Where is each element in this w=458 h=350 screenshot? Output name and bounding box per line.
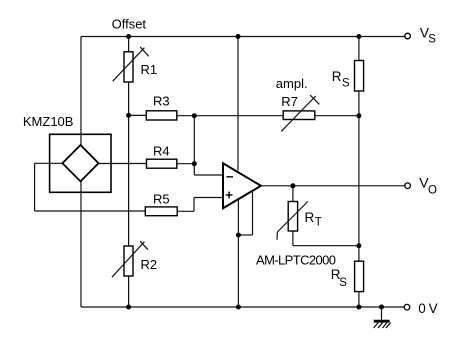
wire op-amp output side loop vertical — [252, 191, 254, 235]
wire op-amp side loop horizontal — [238, 234, 252, 236]
terminal VO — [405, 183, 411, 189]
wire right column RS top — [358, 37, 360, 61]
wire op-amp supply drop — [237, 37, 239, 171]
op-amp plus sign — [226, 194, 233, 196]
junction R7 right column — [356, 113, 361, 118]
wire RT bottom drop — [292, 231, 294, 246]
junction ground stub — [379, 305, 384, 310]
op-amp U1 triangle — [223, 163, 261, 208]
wire op-amp ground drop — [237, 200, 239, 308]
junction offset node — [126, 34, 131, 39]
svg-text:S: S — [342, 77, 350, 89]
svg-text:Offset: Offset — [112, 17, 147, 32]
wire plus input vertical — [193, 198, 195, 212]
junction R3 right — [192, 113, 197, 118]
resistor R5 body — [145, 207, 177, 216]
wire bottom rail 0V — [81, 306, 404, 308]
wire offset column R2 bottom — [128, 276, 130, 307]
wire output VO — [261, 185, 404, 187]
wire ground stub — [381, 307, 383, 321]
svg-text:R5: R5 — [153, 192, 170, 207]
junction VO RT — [290, 183, 295, 188]
svg-text:R4: R4 — [153, 143, 170, 158]
thermistor RT diagonal — [277, 202, 307, 233]
junction RS bottom rail — [356, 305, 361, 310]
ground symbol — [374, 321, 391, 328]
wire right column middle — [358, 91, 360, 261]
op-amp minus sign — [227, 176, 234, 178]
terminal VS — [405, 33, 411, 39]
svg-text:R2: R2 — [141, 257, 158, 272]
wire R5 right — [177, 210, 194, 212]
wire RT top drop — [292, 186, 294, 202]
wire R3 right to R7 left (inverting node) — [177, 115, 283, 117]
wire top rail VS — [81, 36, 405, 38]
junction RT bottom column — [356, 243, 361, 248]
sensor bridge diamond — [62, 145, 98, 181]
svg-text:R1: R1 — [141, 62, 158, 77]
svg-text:R3: R3 — [153, 94, 170, 109]
thermistor RT body — [288, 202, 297, 232]
wire right column RS bottom — [358, 292, 360, 307]
junction R1 R2 R3 — [126, 113, 131, 118]
svg-text:R: R — [305, 210, 315, 225]
wire offset column R1 top — [128, 37, 130, 53]
svg-text:KMZ10B: KMZ10B — [23, 114, 74, 129]
wire bridge left corner to loop — [35, 162, 63, 164]
terminal 0V — [404, 304, 410, 310]
resistor R7 body — [283, 111, 315, 120]
resistor R1 body — [124, 52, 133, 82]
junction R4 right — [192, 161, 197, 166]
resistor RS bottom body — [355, 261, 364, 291]
junction R2 bottom rail — [126, 305, 131, 310]
resistor R2 body — [124, 246, 133, 276]
wire bridge right corner to R4 — [99, 163, 147, 165]
wire minus input — [194, 174, 223, 176]
wire inverting node vertical — [193, 116, 195, 175]
wire offset column R1-R2 — [128, 82, 130, 246]
wire R4 right — [177, 163, 195, 165]
wire loop bottom to R5 — [35, 210, 146, 212]
resistor R7 trimmer arrow — [281, 96, 315, 131]
svg-text:R: R — [332, 69, 342, 84]
wire R3 left — [129, 114, 147, 116]
wire R7 right — [315, 115, 359, 117]
resistor R1 trimmer arrow — [113, 48, 145, 81]
junction op-amp ground loop — [236, 233, 241, 238]
wire left vertical bridge supply — [80, 37, 82, 147]
wire left vertical bridge ground — [80, 181, 82, 308]
svg-text:S: S — [428, 34, 436, 46]
svg-text:S: S — [339, 277, 347, 289]
svg-text:T: T — [315, 217, 322, 229]
sensor KMZ10B box — [50, 134, 111, 192]
wire RT bottom horizontal — [293, 245, 359, 247]
svg-text:ampl.: ampl. — [276, 76, 308, 91]
junction op-amp ground rail — [236, 305, 241, 310]
svg-text:0 V: 0 V — [418, 301, 437, 316]
resistor RS top body — [355, 61, 364, 92]
svg-text:O: O — [428, 185, 437, 197]
junction supply drop top — [236, 34, 241, 39]
junction RS top rail — [356, 34, 361, 39]
resistor R2 trimmer arrow — [112, 242, 144, 278]
resistor R3 body — [146, 111, 177, 120]
svg-text:R7: R7 — [281, 94, 298, 109]
wire plus input — [194, 197, 223, 199]
wire loop left vertical — [34, 163, 36, 211]
svg-text:AM-LPTC2000: AM-LPTC2000 — [256, 253, 336, 268]
resistor R4 body — [147, 159, 177, 168]
